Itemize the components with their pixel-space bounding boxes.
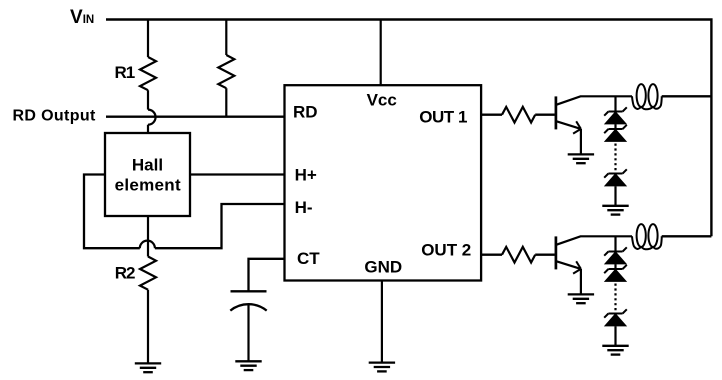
wire GND pin down (381, 281, 383, 363)
capacitor C1 (230, 291, 266, 310)
wire Hall bottom to R2 (147, 216, 149, 257)
wire diode string top (614, 236, 616, 251)
svg-text:H-: H- (295, 198, 313, 217)
wire LED string to ground (614, 186, 616, 206)
wire OUT 2 pin to resistor (481, 254, 502, 256)
resistor base R of OUT 1 (502, 107, 535, 123)
resistor pull-up (218, 55, 234, 88)
wire OUT 1 pin to resistor (481, 114, 502, 116)
dotted continuation (614, 284, 616, 313)
ground LED string 1 (602, 206, 628, 215)
ground C1 (235, 361, 261, 370)
svg-text:Hall: Hall (132, 155, 163, 174)
ground emitter Q1 (568, 154, 594, 163)
wire emitter down (580, 129, 582, 155)
wire hop over RD line (148, 110, 156, 125)
wire hop to Hall element (147, 125, 149, 133)
wire between LEDs (614, 124, 616, 129)
resistor R2 (140, 257, 156, 290)
wire resistor to transistor base (535, 114, 555, 116)
resistor base R of OUT 2 (502, 247, 535, 263)
wire inductor to right rail (662, 235, 712, 237)
wire capacitor to ground (247, 304, 249, 361)
svg-text:R2: R2 (115, 263, 135, 282)
Hall element box (105, 133, 190, 216)
wire RD output line (106, 116, 285, 118)
wire hop over R2 branch (140, 241, 155, 249)
transistor Q1 (556, 96, 632, 133)
wire emitter down (580, 269, 582, 295)
wire VIN top rail and right rail (106, 20, 711, 237)
svg-text:GND: GND (364, 257, 402, 276)
LED D1b (604, 125, 627, 141)
wire resistor to transistor base (535, 254, 555, 256)
LED D1c (604, 169, 627, 185)
wire Hall left to H- loop (84, 175, 140, 249)
resistor R1 (140, 57, 156, 90)
wire between LEDs (614, 264, 616, 269)
svg-text:R1: R1 (115, 63, 135, 82)
wire top rail to pull-up resistor (225, 20, 227, 56)
svg-text:H+: H+ (295, 165, 317, 184)
dotted continuation (614, 144, 616, 173)
svg-text:OUT 2: OUT 2 (421, 240, 471, 259)
LED D1a (604, 107, 627, 123)
wire inductor to right rail (662, 95, 712, 97)
svg-text:element: element (115, 176, 181, 195)
wire LED string to ground (614, 326, 616, 346)
svg-text:CT: CT (297, 249, 320, 268)
svg-text:RD Output: RD Output (13, 108, 96, 125)
ground IC GND (369, 363, 395, 372)
LED D2b (604, 265, 627, 281)
wire R1 to hop (147, 90, 149, 109)
LED D2c (604, 309, 627, 325)
ground R2 (135, 363, 161, 372)
ground LED string 2 (602, 346, 628, 355)
wire loop to H- pin (155, 204, 285, 248)
LED D2a (604, 247, 627, 263)
inductor L1 (632, 84, 662, 109)
wire H+ Hall to IC (190, 173, 285, 175)
IC U1 box (285, 85, 482, 280)
transistor Q2 (556, 236, 632, 273)
inductor L2 (632, 224, 662, 249)
ground emitter Q2 (568, 294, 594, 303)
wire diode string top (614, 96, 616, 111)
wire Vcc (380, 20, 382, 86)
svg-text:OUT 1: OUT 1 (419, 108, 467, 127)
svg-text:Vcc: Vcc (367, 90, 397, 109)
wire R2 to ground (147, 290, 149, 364)
wire CT pin to capacitor (249, 259, 285, 292)
svg-text:RD: RD (293, 102, 318, 121)
wire pull-up to RD line (225, 88, 227, 117)
wire top rail to R1 (147, 20, 149, 58)
